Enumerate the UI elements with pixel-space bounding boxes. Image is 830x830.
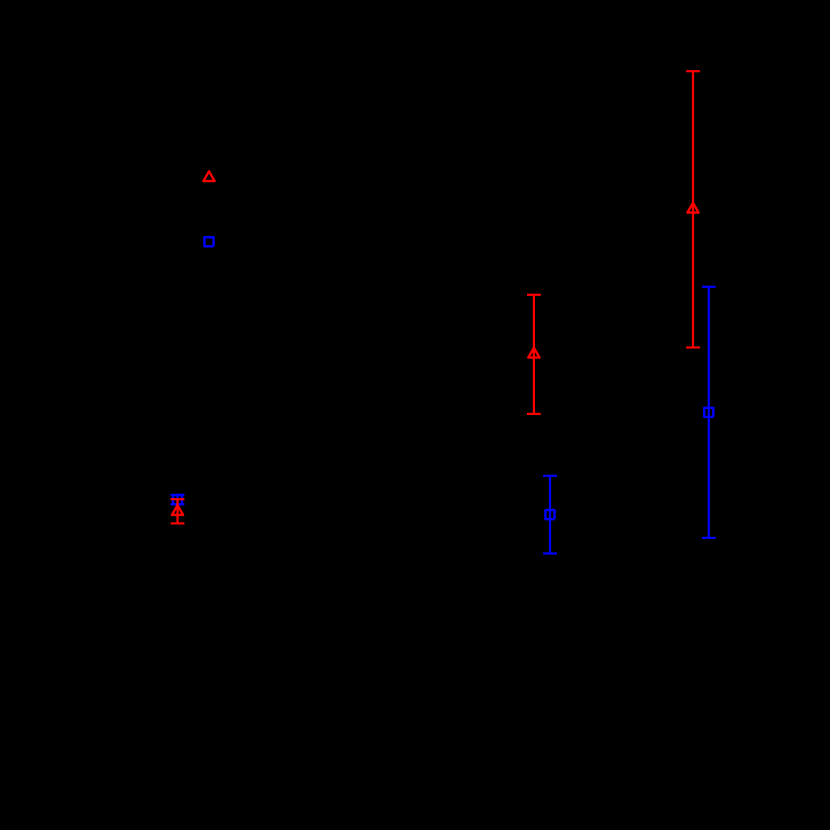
error bar blue group 1: vertical line	[176, 495, 178, 504]
error bar red group 3: bottom cap	[686, 346, 700, 348]
error bar red group 2: bottom cap	[527, 413, 541, 415]
marker red triangle group 3	[687, 203, 698, 213]
error bar red group 1: top cap	[171, 498, 185, 500]
error bar red group 3: vertical line	[692, 71, 694, 347]
marker blue square group 1	[173, 495, 182, 504]
error bar red group 2: top cap	[527, 294, 541, 296]
marker blue square group 3	[704, 408, 713, 417]
error bar blue group 2: bottom cap	[543, 552, 557, 554]
error bar blue group 2: top cap	[543, 475, 557, 477]
legend marker: red triangle (series A)	[203, 171, 214, 181]
legend marker: blue square (series B)	[204, 237, 213, 246]
error bar red group 2: vertical line	[533, 295, 535, 414]
error bar blue group 2: vertical line	[549, 476, 551, 554]
marker red triangle group 1	[172, 505, 183, 515]
error bar red group 3: top cap	[686, 70, 700, 72]
marker red triangle group 2	[528, 348, 539, 358]
error bar blue group 1: bottom cap	[171, 503, 185, 505]
error bar blue group 3: bottom cap	[702, 537, 716, 539]
marker blue square group 2	[545, 510, 554, 519]
error bar blue group 1: top cap	[171, 494, 185, 496]
error bar blue group 3: vertical line	[708, 287, 710, 538]
error bar red group 1: bottom cap	[171, 522, 185, 524]
error bar blue group 3: top cap	[702, 286, 716, 288]
error bar red group 1: vertical line	[176, 499, 178, 523]
